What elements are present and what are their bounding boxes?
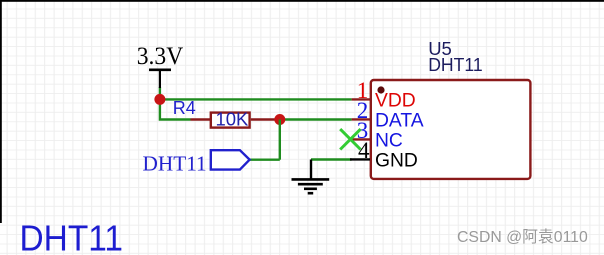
svg-text:R4: R4 xyxy=(173,98,196,118)
port DHT11 xyxy=(211,150,250,169)
svg-text:3.3V: 3.3V xyxy=(137,43,184,70)
svg-text:DATA: DATA xyxy=(375,110,424,131)
ground xyxy=(292,160,330,194)
resistor R4 xyxy=(191,113,276,128)
wire xyxy=(159,87,161,99)
svg-text:NC: NC xyxy=(375,130,403,151)
pin 1 marker dot xyxy=(377,86,384,93)
junction dot xyxy=(154,94,165,105)
svg-text:CSDN @阿袁0110: CSDN @阿袁0110 xyxy=(457,228,588,246)
junction dot xyxy=(274,114,285,125)
pin 2 xyxy=(352,98,370,123)
pin 1 xyxy=(352,78,370,103)
svg-text:GND: GND xyxy=(375,150,418,171)
no-connect X on pin 3 xyxy=(340,129,360,149)
wire xyxy=(275,118,352,120)
power symbol 3.3V xyxy=(137,43,184,88)
svg-text:10K: 10K xyxy=(215,108,249,129)
svg-text:DHT11: DHT11 xyxy=(428,54,483,75)
wire xyxy=(311,158,352,160)
wire xyxy=(160,99,191,119)
wire xyxy=(279,120,281,160)
svg-text:DHT11: DHT11 xyxy=(20,218,124,255)
op-amp U5 body xyxy=(371,80,531,179)
pin 4 xyxy=(350,138,370,163)
svg-text:VDD: VDD xyxy=(375,90,416,111)
wire xyxy=(250,158,280,160)
svg-text:DHT11: DHT11 xyxy=(143,151,207,175)
pin 3 xyxy=(350,118,370,143)
wire xyxy=(160,98,352,100)
